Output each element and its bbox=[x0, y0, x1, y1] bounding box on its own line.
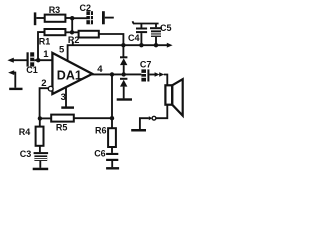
wire R3 to node A bbox=[65, 17, 72, 19]
node R1/R2 junction bbox=[70, 30, 74, 34]
wire node to R5 bbox=[40, 117, 51, 119]
svg-text:C7: C7 bbox=[140, 59, 152, 69]
wire R5 to R6 node bbox=[74, 117, 112, 119]
supply rail bbox=[123, 44, 167, 46]
resistor R1 bbox=[45, 29, 66, 35]
wire R4 to C3 bbox=[39, 146, 41, 152]
output connector XS2.2 arrow and socket bbox=[149, 116, 156, 120]
node C4/rail bbox=[139, 43, 143, 47]
resistor R3 bbox=[45, 15, 66, 22]
wire C3 to ground bbox=[39, 161, 41, 168]
node output/R6 bbox=[110, 72, 114, 76]
diode VD1 bbox=[120, 56, 127, 65]
node diodes/output bbox=[122, 72, 126, 76]
resistor R2 bbox=[79, 31, 99, 38]
ground (C3) bbox=[33, 168, 49, 171]
svg-text:4: 4 bbox=[97, 64, 103, 75]
capacitor C5 bbox=[150, 24, 162, 46]
resistor R5 bbox=[51, 115, 74, 122]
wire R1/R2 node to rail tick bbox=[72, 42, 74, 46]
wire VD1 to output node bbox=[123, 65, 125, 74]
svg-text:C5: C5 bbox=[160, 23, 172, 33]
wire node A down to R1/R2 node bbox=[71, 18, 73, 33]
pin 5 wire bbox=[68, 45, 124, 61]
node rail/diodes bbox=[121, 43, 125, 47]
wire connector to ground bbox=[140, 118, 149, 129]
wire C2 stub right bbox=[105, 17, 114, 19]
svg-text:5: 5 bbox=[59, 45, 65, 56]
wire node to R4 bbox=[39, 118, 41, 126]
svg-text:DA1: DA1 bbox=[57, 68, 82, 82]
wire R6 to C6 bbox=[111, 147, 113, 153]
wire node A to C2 bbox=[72, 17, 87, 19]
wire R1 left to pin1 node bbox=[38, 32, 45, 60]
wire to ground bbox=[14, 73, 16, 88]
wire input to C1 bbox=[13, 59, 27, 61]
pin 2 wire bbox=[40, 88, 49, 118]
wire R1 right to R2 bbox=[65, 31, 78, 33]
svg-text:R6: R6 bbox=[95, 126, 107, 136]
pin 3 stub bbox=[65, 87, 67, 107]
resistor R3 terminal bar bbox=[34, 12, 37, 25]
wire terminal to R3 bbox=[36, 17, 44, 19]
input terminal arrow XS1.1 bbox=[7, 58, 13, 63]
wire R2 right to supply rail bbox=[99, 34, 124, 45]
ground (input) bbox=[9, 88, 22, 90]
resistor R6 bbox=[108, 128, 116, 147]
svg-text:C2: C2 bbox=[80, 3, 92, 13]
ground (pin 3) bbox=[61, 106, 74, 108]
svg-text:C4: C4 bbox=[128, 33, 140, 43]
wire rail to diode VD1 bbox=[122, 45, 124, 56]
ground (C6) bbox=[106, 167, 119, 169]
node pin2/R4/R5 bbox=[38, 116, 42, 120]
svg-text:R2: R2 bbox=[68, 35, 80, 45]
svg-text:3: 3 bbox=[61, 92, 66, 103]
supply arrow bbox=[167, 43, 173, 48]
wire VD2 to ground bbox=[123, 87, 125, 99]
node C1/R1/pin1 bbox=[36, 58, 40, 62]
pin 4 output wire bbox=[92, 73, 141, 75]
ground (speaker) bbox=[131, 129, 146, 132]
wire C1 to pin 1 bbox=[34, 59, 53, 61]
wire C6 to ground bbox=[111, 161, 113, 167]
svg-text:C3: C3 bbox=[20, 149, 32, 159]
capacitor C7 bbox=[141, 69, 149, 81]
top rail C4/C5 bbox=[133, 21, 159, 23]
capacitor C3 bbox=[34, 152, 49, 161]
wire connector to speaker bbox=[164, 75, 168, 86]
speaker BA1 bbox=[165, 79, 182, 115]
pin 2 inversion circle bbox=[48, 86, 53, 91]
svg-text:R4: R4 bbox=[19, 127, 31, 137]
svg-text:C6: C6 bbox=[94, 149, 106, 159]
capacitor C4 bbox=[136, 24, 147, 46]
svg-text:C1: C1 bbox=[26, 65, 38, 75]
svg-text:R5: R5 bbox=[56, 122, 68, 132]
op-amp DA1 bbox=[52, 53, 92, 94]
node C5/rail bbox=[154, 43, 158, 47]
resistor R4 bbox=[36, 127, 44, 146]
diode VD2 bbox=[120, 78, 127, 87]
ground (diodes) bbox=[117, 98, 132, 100]
svg-text:2: 2 bbox=[41, 78, 46, 89]
input ground terminal arrow XS1.2 bbox=[8, 70, 14, 75]
wire speaker to connector bbox=[156, 105, 167, 119]
svg-text:R3: R3 bbox=[49, 5, 61, 15]
wire C7 to connector bbox=[149, 74, 155, 76]
node R5/R6 bbox=[110, 116, 114, 120]
svg-text:1: 1 bbox=[43, 49, 49, 60]
node A junction bbox=[70, 16, 74, 20]
capacitor C2 bbox=[86, 11, 104, 24]
wire output to R6 node bbox=[111, 74, 113, 128]
capacitor C1 bbox=[27, 52, 35, 66]
svg-text:R1: R1 bbox=[39, 37, 51, 47]
capacitor C6 bbox=[106, 153, 118, 161]
output connector XS2.1 arrows bbox=[155, 72, 165, 77]
